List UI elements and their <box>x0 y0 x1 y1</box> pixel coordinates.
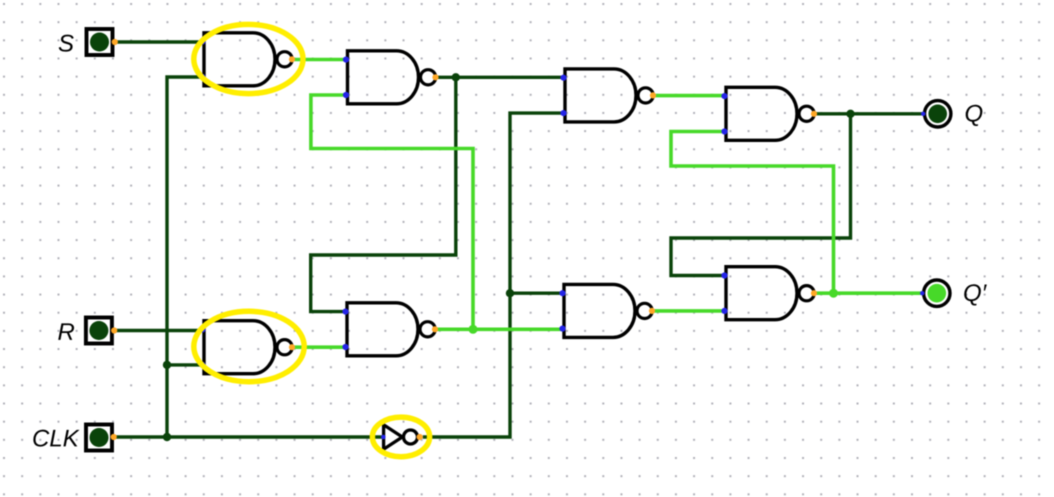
wire U3 output to U8 input B <box>435 327 564 331</box>
junction Q' output node <box>829 289 838 298</box>
port dot U3 output <box>432 326 438 332</box>
wire U4 output to U6 input A <box>653 94 726 98</box>
wire U2 output branch to U3 input A <box>311 77 456 311</box>
junction inverted clock to U8 branch <box>506 289 514 297</box>
port dot U4 output <box>650 92 656 98</box>
port dot U1 input B <box>199 74 205 80</box>
inverter U9 <box>384 425 418 449</box>
highlight oval around U5 <box>194 311 304 381</box>
port dot U2 output <box>432 74 438 80</box>
nand gate U4 <box>565 69 653 122</box>
nand gate U1 <box>204 33 292 86</box>
input pin S <box>87 29 113 55</box>
output pin Q <box>925 101 951 127</box>
nand gate U5 <box>204 321 292 374</box>
port dot Q' pin input <box>920 291 924 295</box>
port dot U4 input A <box>560 75 566 81</box>
highlight oval around U9 <box>372 417 429 457</box>
port dot U1 input A <box>199 39 205 45</box>
port dot U7 input A <box>721 272 727 278</box>
port dot U8 input A <box>559 290 565 296</box>
label S <box>59 35 74 52</box>
nand gate U6 <box>726 87 814 140</box>
label Q' <box>964 284 987 305</box>
port dot U4 input B <box>560 110 566 116</box>
nand gate U3 <box>347 303 435 356</box>
wire Q' feedback to U6 input B <box>671 132 834 294</box>
junction U3 output node <box>469 325 478 334</box>
wire U7 output to Q' pin <box>814 291 922 295</box>
junction CLK rail at riser <box>163 433 171 441</box>
input pin CLK <box>86 425 112 451</box>
wire U3 output feedback to U2 input B <box>311 95 473 329</box>
port dot U7 output <box>811 290 817 296</box>
port dot Q pin input <box>921 112 925 116</box>
port dot U8 output <box>649 308 655 314</box>
wire U5 output to U3 input B <box>292 345 347 349</box>
junction Q output node <box>846 110 854 118</box>
port dot U5 input B <box>199 362 205 368</box>
port dot U6 input B <box>721 128 727 134</box>
label Q <box>966 105 983 126</box>
wire CLK riser to U1 input B <box>167 77 204 439</box>
wire CLK pin to inverter U9 input <box>113 435 383 438</box>
port dot U1 output <box>289 56 295 62</box>
port dot U9 output <box>417 434 423 440</box>
port dot U9 input <box>381 435 386 440</box>
nand gate U8 <box>564 284 652 337</box>
wire Q feedback to U7 input A <box>671 114 851 276</box>
port dot U3 input B <box>342 344 348 350</box>
nand gate U7 <box>726 267 814 320</box>
wire U2 output to U4 input A <box>436 76 566 79</box>
wire CLK branch to U5 input B <box>166 363 205 366</box>
port dot U6 input A <box>721 93 727 99</box>
port dot U7 input B <box>721 308 727 314</box>
port dot U2 input A <box>343 57 349 63</box>
port dot U2 input B <box>343 92 349 98</box>
wire U6 output to Q pin <box>814 112 923 115</box>
port dot S pin output <box>112 39 118 45</box>
output pin Q' <box>924 280 950 306</box>
wire inverted clock branch to U8 input A <box>510 292 564 295</box>
port dot U5 output <box>289 344 295 350</box>
port dot U8 input B <box>559 326 565 332</box>
label R <box>58 323 74 340</box>
input pin R <box>86 318 112 344</box>
port dot CLK pin output <box>111 434 117 440</box>
port dot R pin output <box>111 327 117 333</box>
port dot U3 input A <box>342 309 348 315</box>
port dot U5 input A <box>199 326 205 332</box>
highlight oval around U1 <box>194 24 303 93</box>
junction U2 output node <box>452 73 460 81</box>
wire U1 output to U2 input A <box>292 58 348 62</box>
wire U9 output to U4 input B <box>423 113 565 437</box>
label CLK <box>33 430 79 447</box>
junction CLK riser to U5 branch <box>163 361 171 369</box>
wire U8 output to U7 input B <box>652 309 726 313</box>
port dot U6 output <box>811 111 817 117</box>
nand gate U2 <box>348 51 436 104</box>
wire S pin to U1 input A <box>115 40 205 43</box>
wire R pin to U5 input A <box>114 329 204 332</box>
